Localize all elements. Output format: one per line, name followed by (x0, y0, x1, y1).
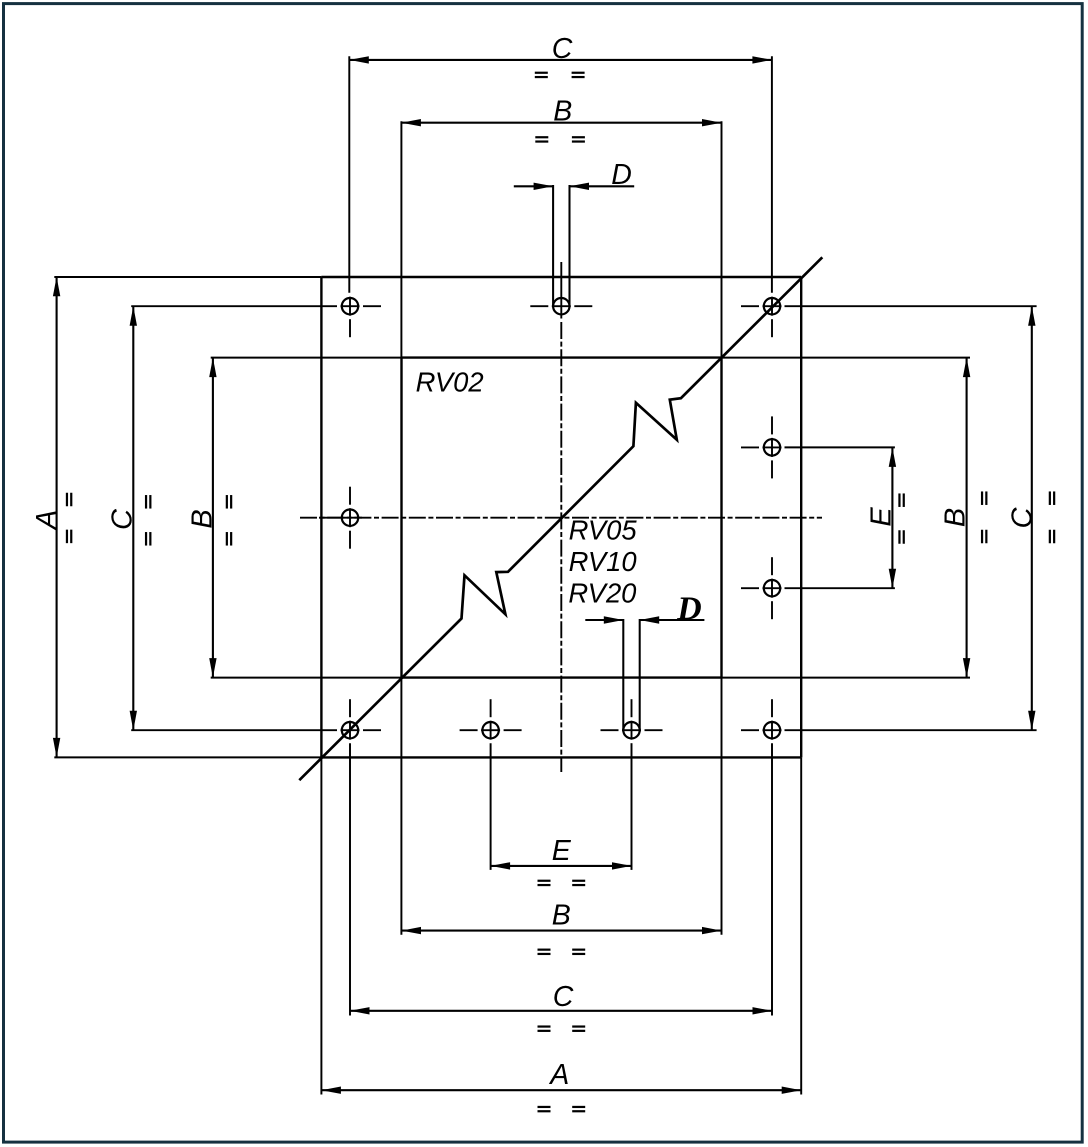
value placeholder = = for dim A bottom (right) (572, 1106, 585, 1108)
centermark horizontal: hole top-right (741, 305, 759, 307)
value placeholder = = for dim B bottom (right) (572, 949, 585, 951)
centermark horizontal: hole top-left (319, 305, 337, 307)
arrowhead dim E bottom left (491, 862, 511, 869)
centermark horizontal: hole bottom E-left (460, 729, 478, 731)
extension line: dim B top, left (400, 121, 402, 357)
plate RV02 outline: bottom edge (321, 756, 801, 758)
dim D top: right tangent line (568, 185, 570, 307)
bolt hole right upper (764, 439, 780, 455)
svg-text:RV05: RV05 (569, 515, 638, 546)
centermark horizontal: hole bottom-left (319, 729, 337, 731)
extension line: dim B left, top (211, 357, 402, 359)
arrowhead dim C top right (752, 56, 772, 63)
svg-text:RV10: RV10 (569, 546, 637, 577)
arrowhead dim A bottom right (782, 1087, 802, 1094)
centermark vertical: hole bottom-left (349, 699, 351, 717)
extension line: dim E bottom, right (631, 743, 633, 870)
value placeholder = = for dim B top (left) (535, 136, 548, 138)
bolt hole bottom E-right (623, 722, 639, 738)
extension line: dim E right, bottom (785, 587, 895, 589)
arrowhead dim B left top (209, 358, 216, 378)
arrowhead dim C bottom right (753, 1007, 773, 1014)
vertical centerline (dash-dot) (560, 322, 562, 772)
extension line: dim C bottom, left (349, 743, 351, 1015)
dim D top: left tangent line (552, 185, 554, 307)
bolt hole top-right (764, 298, 780, 314)
arrowhead dim C right top (1028, 306, 1035, 326)
centermark vertical: hole mid-left (349, 487, 351, 505)
value placeholder = = for dim B left (lower) (226, 532, 228, 546)
dimension line D top, right part (570, 185, 635, 187)
dimension line D top, left part (514, 185, 553, 187)
bolt hole top-left (342, 298, 358, 314)
svg-text:C: C (553, 981, 574, 1013)
value placeholder = = for dim B bottom (left) (538, 949, 551, 951)
extension line: dim A left, top (54, 276, 321, 278)
arrowhead dim B right bottom (963, 658, 970, 678)
centermark vertical: hole bottom E-right (631, 699, 633, 717)
extension line: dim B bottom, right (721, 678, 723, 935)
centermark vertical: hole bottom E-left (490, 699, 492, 717)
diagonal separator line with two break symbols (299, 257, 822, 780)
plate RV02 outline: top edge (321, 276, 801, 278)
arrowhead dim C top left (349, 56, 369, 63)
value placeholder = = for dim C left (lower) (145, 532, 147, 546)
extension line: dim E right, top (785, 446, 895, 448)
dimension line C bottom (350, 1010, 772, 1012)
svg-text:E: E (552, 835, 572, 867)
svg-text:B: B (939, 508, 971, 527)
centermark vertical: hole bottom-right (771, 699, 773, 717)
bolt hole right lower (764, 580, 780, 596)
svg-text:RV20: RV20 (568, 577, 636, 608)
arrowhead dim D bottom right (inward) (640, 616, 660, 623)
value placeholder = = for dim C top (left) (535, 72, 548, 74)
value placeholder = = for dim B right (upper) (981, 491, 983, 505)
value placeholder = = for dim C bottom (right) (572, 1025, 585, 1027)
svg-text:C: C (107, 508, 139, 530)
centermark horizontal: hole top-center (530, 305, 548, 307)
arrowhead dim B top right (702, 119, 722, 126)
arrowhead dim B bottom left (402, 927, 422, 934)
extension line: dim C left, top (131, 305, 319, 307)
value placeholder = = for dim C bottom (left) (538, 1025, 551, 1027)
svg-text:B: B (553, 95, 572, 127)
dimension line C left (132, 306, 134, 730)
svg-text:C: C (552, 33, 573, 65)
arrowhead dim E right bottom (889, 569, 896, 589)
arrowhead dim B right top (963, 358, 970, 378)
centermark vertical: hole top-left (349, 297, 351, 316)
extension line: dim B left, bottom (211, 677, 402, 679)
value placeholder = = for dim B right (lower) (981, 530, 983, 544)
value placeholder = = for dim E right (upper) (898, 493, 900, 507)
dimension line A bottom (321, 1089, 801, 1091)
extension line: dim C right, top (785, 305, 1037, 307)
horizontal centerline, solid part through mid-left hole (319, 517, 362, 519)
dimension line E bottom (491, 865, 632, 867)
valve body outline: right edge (720, 358, 722, 678)
svg-text:D: D (611, 159, 632, 191)
horizontal centerline (dash-dot) (300, 517, 822, 519)
valve body outline: left edge (400, 358, 402, 678)
value placeholder = = for dim B top (right) (572, 136, 585, 138)
svg-text:E: E (865, 507, 897, 527)
svg-text:B: B (552, 899, 571, 931)
arrowhead dim B top left (401, 119, 421, 126)
dimension line A left (56, 277, 58, 758)
extension line: dim C bottom, right (771, 743, 773, 1015)
centermark horizontal: hole bottom-right (741, 729, 759, 731)
extension line: dim A bottom, right (800, 757, 802, 1094)
value placeholder = = for dim E right (lower) (898, 530, 900, 544)
arrowhead dim B left bottom (209, 658, 216, 678)
centermark horizontal: hole right upper (741, 446, 759, 448)
svg-text:A: A (548, 1059, 569, 1091)
value placeholder = = for dim C right (upper) (1049, 491, 1051, 505)
value placeholder = = for dim C left (upper) (145, 495, 147, 509)
svg-text:RV02: RV02 (416, 366, 484, 397)
arrowhead dim A bottom left (321, 1087, 341, 1094)
svg-text:A: A (31, 510, 63, 531)
extension line: dim C top, left (348, 56, 350, 293)
dim D bottom: left tangent line (622, 619, 624, 732)
bolt hole mid-left (342, 510, 358, 526)
value placeholder = = for dim A bottom (left) (538, 1106, 551, 1108)
plate RV02 outline: left edge (320, 277, 322, 757)
dimension line D bottom, left part (585, 619, 623, 621)
plate RV02 outline: right edge (800, 277, 802, 757)
centermark vertical: hole top-right (771, 297, 773, 316)
extension line: dim B bottom, left (400, 678, 402, 935)
value placeholder = = for dim C top (right) (572, 72, 585, 74)
extension line: dim A left, bottom (54, 756, 321, 758)
value placeholder = = for dim E bottom (right) (572, 880, 585, 882)
value placeholder = = for dim B left (upper) (226, 495, 228, 509)
arrowhead dim B bottom right (702, 927, 722, 934)
extension line: dim C right, bottom (785, 729, 1037, 731)
value placeholder = = for dim A left (upper) (66, 493, 68, 507)
extension line: dim B right, top (722, 357, 971, 359)
arrowhead dim C left top (130, 306, 137, 326)
arrowhead dim A left top (53, 277, 60, 297)
arrowhead dim E bottom right (612, 862, 632, 869)
arrowhead dim C right bottom (1028, 711, 1035, 731)
bolt hole bottom-right (764, 722, 780, 738)
vertical centerline, solid part through top hole (560, 262, 562, 319)
arrowhead dim C bottom left (350, 1007, 370, 1014)
svg-text:C: C (1006, 506, 1038, 528)
dimension line B top (401, 122, 721, 124)
arrowhead dim D top left (inward) (534, 183, 554, 190)
centermark horizontal: hole bottom E-right (601, 729, 619, 731)
value placeholder = = for dim A left (lower) (66, 530, 68, 544)
value placeholder = = for dim E bottom (left) (538, 880, 551, 882)
extension line: dim C left, bottom (131, 729, 319, 731)
arrowhead dim A left bottom (53, 738, 60, 758)
dim D bottom: right tangent line (639, 619, 641, 732)
value placeholder = = for dim C right (lower) (1049, 530, 1051, 544)
extension line: dim C top, right (771, 56, 773, 293)
dimension line E right (891, 447, 893, 588)
dimension line C right (1031, 306, 1033, 730)
bolt hole bottom E-left (482, 722, 498, 738)
dimension line D bottom, right part (640, 619, 705, 621)
dimension line B left (212, 358, 214, 678)
centermark vertical: hole right lower (771, 557, 773, 575)
arrowhead dim C left bottom (130, 711, 137, 731)
centermark horizontal: hole right lower (741, 587, 759, 589)
svg-text:B: B (187, 509, 219, 528)
dimension line C top (349, 59, 772, 61)
valve body outline: top edge (402, 356, 722, 358)
arrowhead dim E right top (889, 447, 896, 467)
bolt hole top-center (553, 298, 569, 314)
arrowhead dim D top right (inward) (570, 183, 590, 190)
arrowhead dim D bottom left (inward) (604, 616, 624, 623)
svg-text:D: D (676, 591, 702, 628)
extension line: dim A bottom, left (320, 757, 322, 1094)
valve body outline: bottom edge (402, 676, 722, 678)
centermark vertical: hole right upper (771, 416, 773, 434)
bolt hole bottom-left (342, 722, 358, 738)
dimension line B bottom (402, 930, 722, 932)
extension line: dim B right, bottom (722, 677, 971, 679)
dimension line B right (966, 358, 968, 678)
extension line: dim E bottom, left (490, 743, 492, 870)
extension line: dim B top, right (721, 121, 723, 357)
